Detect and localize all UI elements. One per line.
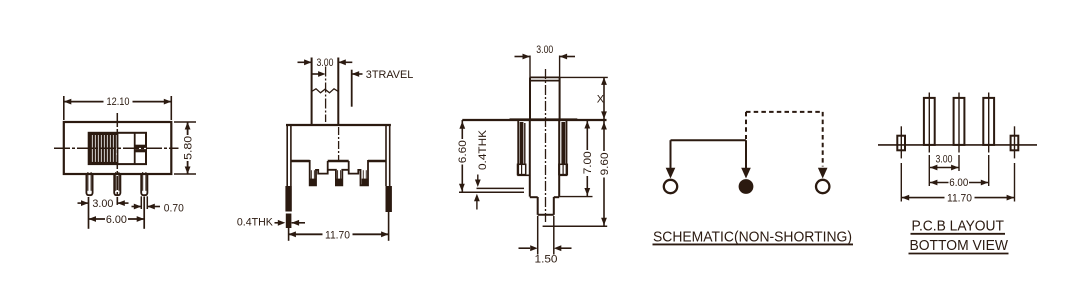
view1 pin at x=117.3 <box>114 174 120 195</box>
view2 terminal pin at x=312.85 <box>310 170 312 184</box>
view2 actuator centerline <box>325 67 327 123</box>
view3 base bottom <box>530 196 538 198</box>
view3 top bar (with extension lines) <box>462 119 606 121</box>
svg-text:0.4THK: 0.4THK <box>237 217 274 229</box>
pcb horizontal centerline <box>878 144 1037 146</box>
dimension 6.00 <box>143 197 145 229</box>
dimension 0.70 (pin width) <box>140 196 142 209</box>
svg-text:5.80: 5.80 <box>182 136 194 160</box>
dashed alternate position wire <box>746 111 823 113</box>
pcb slot at x=988.7 <box>983 98 994 145</box>
dimension 3.00 (pin pitch) <box>88 197 90 229</box>
view3 cavity walls <box>529 120 531 197</box>
view3 dimension 9.60 <box>543 225 608 227</box>
pcb left side pad <box>897 136 905 151</box>
svg-text:X: X <box>597 94 605 106</box>
view1 front-view outer body <box>64 122 172 174</box>
view3 outer walls <box>517 120 519 175</box>
svg-text:0.70: 0.70 <box>164 203 184 215</box>
svg-text:6.00: 6.00 <box>949 177 968 189</box>
view3 plate foot boxes <box>518 164 526 174</box>
pcb right side pad <box>1011 136 1019 151</box>
svg-text:11.70: 11.70 <box>325 229 350 241</box>
view3 step bottoms <box>517 174 530 176</box>
view2 actuator sides <box>311 58 313 126</box>
svg-text:6.00: 6.00 <box>106 214 127 226</box>
schematic terminal 2 (filled, common) <box>739 179 754 194</box>
svg-text:12.10: 12.10 <box>107 96 130 108</box>
pcb slot at x=929.3 <box>924 98 935 145</box>
arrow onto contact 2 <box>741 168 751 179</box>
view3 actuator <box>529 77 531 120</box>
view1 contact box middle band <box>135 145 146 153</box>
dimension 5.80 <box>174 121 196 123</box>
pcb dimension 6.00 <box>929 182 988 184</box>
view1 slider window <box>89 133 146 164</box>
view2 left mounting leg <box>286 125 288 187</box>
view2 body top <box>286 124 391 126</box>
view2 base bottom profile <box>291 160 310 163</box>
pcb slot at x=959.0 <box>954 98 965 145</box>
view3 metal side plates (section fill) <box>520 122 524 164</box>
schematic terminal 3 (open) <box>816 180 829 193</box>
view1 pin at x=89.5 <box>86 174 92 195</box>
svg-text:11.70: 11.70 <box>947 192 972 204</box>
view1 horizontal centerline <box>54 147 179 149</box>
svg-text:6.60: 6.60 <box>457 140 469 163</box>
view2 dimension 11.70 <box>288 228 290 241</box>
svg-text:3.00: 3.00 <box>92 198 113 210</box>
view2 body centerline <box>338 127 340 160</box>
schematic solid wire common-to-pole <box>671 139 747 141</box>
svg-text:SCHEMATIC(NON-SHORTING): SCHEMATIC(NON-SHORTING) <box>653 229 852 246</box>
view3 dimension X <box>560 76 608 78</box>
view2 actuator break (zigzag) <box>312 89 339 93</box>
svg-text:1.50: 1.50 <box>535 253 558 265</box>
view3 dimension 3.00 <box>529 56 531 78</box>
pcb dimension 3.00 <box>928 155 930 186</box>
svg-text:9.60: 9.60 <box>599 152 611 175</box>
arrow onto contact 3 <box>818 168 828 179</box>
arrow onto contact 1 <box>666 168 676 179</box>
view1 vertical centerline <box>116 113 118 205</box>
dimension 12.10 <box>63 96 65 120</box>
view2 dimension 3.00 (actuator width) <box>298 61 312 63</box>
view1 knob (hatched) <box>89 133 119 164</box>
view3 dimension 7.00 <box>559 196 592 198</box>
view3 centerline <box>545 69 547 222</box>
wire down to contact 1 <box>670 140 672 169</box>
wire down to contact 2 <box>745 140 747 169</box>
svg-text:3.00: 3.00 <box>536 44 553 56</box>
view3 bottom pin <box>537 197 539 215</box>
svg-text:3TRAVEL: 3TRAVEL <box>366 69 414 81</box>
view3 dimension 6.60 <box>459 191 462 193</box>
svg-text:3.00: 3.00 <box>936 154 953 166</box>
svg-text:BOTTOM VIEW: BOTTOM VIEW <box>910 237 1009 254</box>
pcb dimension 11.70 <box>900 163 902 202</box>
view1 contact box divider <box>134 133 136 164</box>
schematic terminal 1 (open) <box>664 180 677 193</box>
view2 terminal pin at x=364.75 <box>362 170 364 184</box>
view3 left solder tab <box>477 187 525 189</box>
view1 pin at x=144.3 <box>141 174 147 195</box>
view2 terminal pin at x=339.1 <box>337 170 339 184</box>
view2 right mounting leg <box>389 125 391 187</box>
svg-text:7.00: 7.00 <box>582 151 594 174</box>
view2 travel arrow + label 3TRAVEL <box>312 73 319 75</box>
svg-text:P.C.B LAYOUT: P.C.B LAYOUT <box>912 217 1005 234</box>
svg-text:0.4THK: 0.4THK <box>477 129 489 170</box>
view3 dimension 1.50 <box>537 216 539 255</box>
